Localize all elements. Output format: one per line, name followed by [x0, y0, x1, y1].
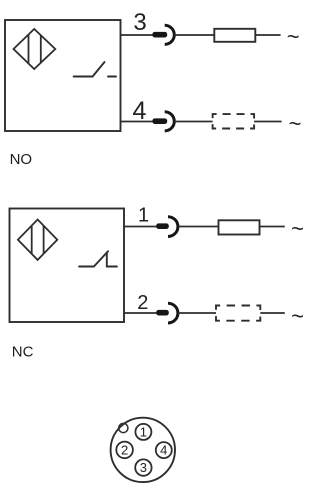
pin 4 circle [156, 442, 172, 458]
svg-text:3: 3 [133, 9, 146, 36]
svg-text:~: ~ [287, 24, 300, 49]
connector plug pin1 [156, 223, 169, 229]
svg-text:3: 3 [140, 460, 147, 475]
connector plug pin3 [152, 32, 167, 38]
svg-text:1: 1 [138, 205, 149, 227]
wire pin3 [121, 34, 153, 36]
connector face big circle [111, 418, 175, 482]
connector socket arc pin4 [165, 112, 175, 131]
load resistor (dashed) row2 [216, 306, 260, 321]
svg-text:~: ~ [289, 111, 302, 136]
sensor body box NC [10, 209, 125, 323]
keying notch circle [119, 423, 128, 432]
wire pin2 [124, 312, 156, 314]
svg-text:~: ~ [291, 304, 304, 329]
NO switch contact [74, 62, 116, 77]
svg-text:NO: NO [10, 151, 32, 168]
connector plug pin2 [156, 310, 169, 316]
wire [178, 312, 216, 314]
wire pin1 [124, 226, 156, 228]
NC switch contact [79, 251, 117, 266]
wire [260, 226, 285, 228]
proximity sensor symbol (diamond) NC [18, 220, 57, 260]
wire [174, 121, 212, 123]
connector socket arc pin3 [165, 25, 175, 44]
load resistor (solid) row1 [219, 220, 260, 234]
load resistor (dashed) row4 [213, 114, 255, 128]
svg-text:NC: NC [12, 344, 34, 361]
pin 1 circle [135, 424, 151, 440]
load resistor (solid) row3 [214, 29, 255, 42]
wire [174, 34, 214, 36]
connector plug pin4 [152, 118, 167, 124]
connector socket arc pin1 [168, 217, 178, 237]
pin 3 circle [135, 459, 151, 475]
svg-text:1: 1 [140, 425, 147, 440]
wire pin4 [121, 121, 153, 123]
svg-text:~: ~ [291, 216, 304, 241]
wire [178, 226, 219, 228]
wire [255, 34, 280, 36]
proximity sensor symbol (diamond) NO [14, 29, 56, 69]
pin 2 circle [116, 442, 133, 459]
wire [254, 121, 282, 123]
svg-text:2: 2 [137, 292, 148, 314]
svg-text:4: 4 [160, 443, 167, 458]
wire [260, 312, 285, 314]
svg-text:2: 2 [121, 443, 128, 458]
sensor body box NO [5, 20, 121, 131]
connector socket arc pin2 [168, 303, 178, 323]
